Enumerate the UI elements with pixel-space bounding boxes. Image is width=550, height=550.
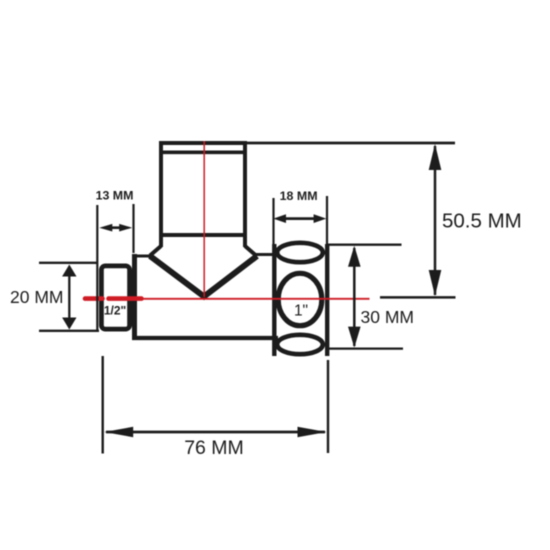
- red centerline vertical: [203, 141, 205, 297]
- stem side stubs below bonnet: [150, 235, 256, 256]
- 1/2 inch inlet fitting: [101, 266, 129, 329]
- stem top extension line (to 50.5 MM dimension): [247, 142, 455, 145]
- dimension 18 MM: [274, 196, 328, 244]
- valve cone (V seat): [150, 256, 257, 297]
- red centerline horizontal thin: [143, 298, 370, 300]
- outlet cylinder right wall: [325, 244, 329, 356]
- svg-text:18 MM: 18 MM: [280, 189, 318, 203]
- valve body top edge right segment: [254, 253, 277, 256]
- valve body bottom edge: [132, 336, 278, 340]
- valve stem / bonnet outline: [161, 143, 245, 235]
- outlet top ellipse: [277, 243, 323, 262]
- valve body top edge left segment: [132, 255, 152, 258]
- outlet bottom ellipse: [277, 335, 323, 354]
- svg-text:30 MM: 30 MM: [361, 307, 414, 327]
- svg-text:76 MM: 76 MM: [184, 437, 244, 459]
- svg-text:1/2": 1/2": [104, 304, 126, 318]
- dimension 50.5 MM: [380, 146, 456, 297]
- dimension 13 MM: [97, 204, 133, 331]
- svg-text:1": 1": [294, 303, 308, 320]
- svg-text:50.5 MM: 50.5 MM: [442, 210, 522, 233]
- outlet middle ellipse (1 inch bore): [278, 273, 322, 325]
- dimension 76 MM: [103, 356, 328, 454]
- red centerline horizontal thick dashes: [85, 296, 142, 301]
- stem cap line: [159, 151, 247, 155]
- dimension 30 MM: [326, 245, 403, 349]
- outlet cylinder left wall: [272, 244, 276, 356]
- valve body left edge: [132, 254, 137, 340]
- svg-text:20 MM: 20 MM: [10, 287, 63, 307]
- dimension 20 MM: [39, 263, 99, 331]
- svg-text:13 MM: 13 MM: [96, 189, 134, 203]
